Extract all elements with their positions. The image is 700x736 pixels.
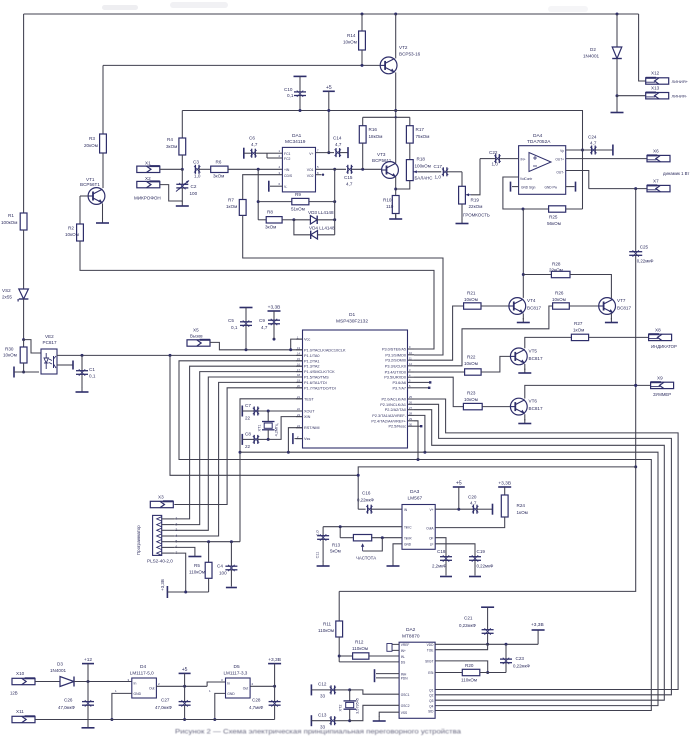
svg-text:+5: +5 (326, 85, 332, 91)
wire P2.4 corner (414, 421, 418, 460)
wire D5 out (250, 685, 276, 688)
resistor R8 (258, 210, 295, 230)
svg-text:4,7: 4,7 (346, 182, 353, 187)
resistor R3 (84, 134, 106, 153)
transistor VT1 (80, 177, 105, 204)
power +3.3 da3 (498, 481, 511, 496)
svg-text:X5: X5 (193, 328, 199, 333)
wire +IN branch down (257, 169, 260, 220)
wire RST net (240, 428, 303, 454)
svg-text:110кОм: 110кОм (318, 628, 334, 633)
svg-text:VT3: VT3 (377, 152, 386, 157)
connector X6 (647, 149, 670, 162)
svg-text:VDD: VDD (427, 643, 434, 647)
gnd VT6 (518, 414, 531, 423)
svg-text:PDN: PDN (401, 677, 408, 681)
transistor VT7 (599, 298, 632, 315)
svg-text:ИНДИКАТОР: ИНДИКАТОР (651, 344, 677, 349)
svg-text:X3: X3 (158, 495, 164, 500)
svg-text:1,0: 1,0 (492, 162, 499, 167)
svg-text:Вызов: Вызов (190, 334, 203, 339)
svg-text:4,7: 4,7 (335, 142, 342, 147)
svg-text:БАЛАНС: БАЛАНС (415, 176, 433, 181)
svg-text:R20: R20 (465, 663, 474, 668)
svg-text:P3.2/SOMI0: P3.2/SOMI0 (385, 359, 406, 363)
svg-text:St/GT: St/GT (425, 660, 433, 664)
ic DA2 MT8870 (399, 627, 435, 718)
wire VT1 base (80, 196, 88, 224)
svg-text:47,0мкФ: 47,0мкФ (58, 705, 75, 710)
svg-text:C13: C13 (318, 713, 327, 718)
svg-text:P3.1/SIMO0: P3.1/SIMO0 (385, 353, 406, 357)
svg-text:C6: C6 (249, 136, 255, 141)
svg-text:1кОм: 1кОм (573, 327, 584, 332)
gnd bar left (14, 367, 39, 378)
svg-text:110кОм: 110кОм (189, 570, 205, 575)
svg-text:100кОм: 100кОм (1, 220, 17, 225)
svg-text:C20: C20 (468, 495, 477, 500)
svg-text:TimC: TimC (404, 526, 412, 530)
optocoupler VE2 (41, 334, 57, 374)
svg-text:4: 4 (176, 534, 178, 538)
svg-text:Q3: Q3 (429, 699, 433, 703)
svg-text:4,7: 4,7 (470, 501, 477, 506)
svg-text:DS: DS (401, 661, 405, 665)
svg-text:+3,3В: +3,3В (268, 657, 281, 663)
capacitor C23 (500, 644, 530, 672)
wire R18 bottom (396, 181, 410, 189)
svg-text:+IN: +IN (284, 168, 290, 172)
resistor R7 (226, 198, 246, 216)
wire R1 to VS2 (23, 230, 25, 289)
zener VS2 (2, 288, 28, 302)
wire X4 pin7 to 3.3 (174, 553, 185, 592)
svg-text:1N4001: 1N4001 (583, 54, 600, 59)
svg-text:R27: R27 (574, 321, 583, 326)
svg-text:1кОм: 1кОм (226, 204, 237, 209)
svg-text:P2.1/INCLK/A1: P2.1/INCLK/A1 (380, 403, 406, 407)
svg-text:X1: X1 (145, 161, 151, 166)
svg-text:R24: R24 (517, 503, 526, 508)
wire node to VE2 pin1 (24, 340, 41, 353)
svg-text:Out: Out (243, 687, 249, 691)
svg-text:4,7: 4,7 (251, 142, 258, 147)
svg-text:VT2: VT2 (399, 45, 408, 50)
resistor R27 (571, 321, 648, 341)
capacitor C10 (284, 76, 307, 112)
svg-text:C1: C1 (89, 367, 95, 372)
stub P2.5 (414, 425, 422, 427)
svg-text:+5: +5 (182, 667, 188, 673)
svg-text:FC2: FC2 (284, 157, 291, 161)
wire R2 to P3.0 line (80, 241, 434, 349)
wire VE2 emitter bar (57, 361, 73, 370)
svg-text:47,0мкФ: 47,0мкФ (155, 705, 172, 710)
svg-text:C5: C5 (228, 318, 234, 323)
svg-text:C23: C23 (516, 656, 525, 661)
transistor VT2 (380, 45, 420, 74)
svg-text:C7: C7 (245, 403, 251, 408)
capacitor C20 (468, 495, 493, 515)
gnd VT7 (605, 314, 618, 323)
wire P2.0 to Q1 (414, 399, 678, 690)
label МИКРОФОН (134, 196, 161, 201)
svg-text:R21: R21 (467, 291, 476, 296)
svg-text:DA1: DA1 (292, 133, 302, 139)
svg-text:X10: X10 (16, 671, 25, 676)
svg-text:BC817: BC817 (529, 356, 543, 361)
svg-text:0,22мкФ: 0,22мкФ (513, 664, 530, 669)
capacitor C5 (228, 308, 253, 350)
svg-text:1,0: 1,0 (194, 174, 201, 179)
svg-text:P3.0/STE0/A5: P3.0/STE0/A5 (382, 348, 406, 352)
connector X2 (137, 176, 160, 188)
svg-text:TEST: TEST (304, 397, 314, 401)
terminator DA1 V- (269, 181, 283, 192)
svg-text:R11: R11 (323, 622, 332, 627)
svg-text:51кОм: 51кОм (291, 207, 305, 212)
stubs DA4 gnd pins (566, 182, 576, 192)
svg-text:22: 22 (245, 416, 251, 421)
capacitor C4 (217, 542, 237, 588)
gnd X4 pin6 (174, 547, 201, 556)
power +5 psu (179, 667, 191, 686)
svg-text:P2.3/TA1/A3/VREF-: P2.3/TA1/A3/VREF- (372, 414, 406, 418)
diode D2 (583, 13, 622, 98)
mcu right pins (371, 345, 414, 429)
connector X7 (647, 179, 670, 192)
connector X10 (10, 671, 35, 696)
wire left vertical (23, 14, 25, 213)
svg-text:Программатор: Программатор (136, 525, 141, 555)
wire R18 wiper to C17 (418, 171, 441, 173)
svg-text:BC817: BC817 (527, 306, 541, 311)
svg-text:V+: V+ (309, 152, 313, 156)
svg-text:1кОм: 1кОм (517, 510, 528, 515)
svg-text:Q1: Q1 (429, 688, 433, 692)
svg-text:GND Pw: GND Pw (545, 185, 558, 189)
svg-text:C11: C11 (316, 552, 320, 559)
connector X12 (646, 71, 689, 85)
wire to X12 (639, 14, 646, 81)
wire VT3 collector (395, 117, 397, 163)
svg-text:ЛИНИЯ+: ЛИНИЯ+ (672, 79, 689, 84)
svg-text:X8: X8 (655, 327, 661, 332)
svg-text:22: 22 (245, 444, 251, 449)
wire P2.1 to Q2 (414, 404, 671, 695)
power +3.3 prog (160, 579, 209, 598)
svg-text:C9: C9 (259, 318, 265, 323)
regulator D5 (209, 664, 254, 698)
wire VT4 collector (522, 209, 525, 298)
connector X11 (12, 709, 35, 723)
connector X13 (646, 86, 688, 99)
svg-text:IN+: IN+ (401, 649, 406, 653)
svg-text:C10: C10 (284, 87, 293, 92)
resistor R5 (189, 542, 212, 592)
svg-text:LF: LF (430, 543, 434, 547)
wire P3.5 to R23 (414, 377, 463, 406)
wire R16 R17 bracket (363, 116, 410, 118)
svg-text:Рисунок 2 — Схема электрическа: Рисунок 2 — Схема электрическая принципи… (175, 728, 462, 736)
gnd VSS (373, 712, 399, 721)
wire TimC row (323, 525, 402, 528)
svg-text:BCP5611: BCP5611 (372, 158, 392, 163)
wire TOE up (435, 644, 488, 649)
svg-text:R25: R25 (549, 215, 558, 220)
capacitor C14 (333, 136, 348, 159)
svg-text:VolContr: VolContr (520, 177, 533, 181)
svg-text:10кОм: 10кОм (464, 397, 478, 402)
svg-text:100кОм: 100кОм (415, 163, 431, 168)
svg-text:22кОм: 22кОм (549, 267, 563, 272)
capacitor C12 (311, 682, 351, 699)
wire X10 to D3 (35, 681, 60, 683)
svg-text:R18: R18 (417, 157, 426, 162)
svg-text:12В: 12В (10, 691, 18, 696)
svg-text:C26: C26 (64, 698, 73, 703)
wire jog to D5 (207, 682, 225, 686)
svg-text:Vss: Vss (304, 437, 310, 441)
wire P3.2 to R21 (414, 306, 464, 360)
svg-text:X2: X2 (145, 176, 151, 181)
svg-text:C14: C14 (333, 136, 342, 141)
transistor VT4 (509, 298, 542, 315)
svg-text:C2: C2 (191, 184, 197, 189)
svg-text:GND Sign: GND Sign (521, 185, 536, 189)
svg-text:VT5: VT5 (529, 349, 538, 354)
connector X9 (651, 376, 674, 398)
svg-text:P3.7/A7: P3.7/A7 (392, 386, 406, 390)
svg-text:2: 2 (176, 522, 178, 526)
capacitor C9 (259, 318, 280, 339)
svg-text:0,1: 0,1 (89, 374, 96, 379)
resistor R28 (523, 262, 570, 278)
svg-text:110кОм: 110кОм (461, 678, 477, 683)
svg-text:C4: C4 (217, 564, 223, 569)
svg-text:P1.4/SMCLK/TCK: P1.4/SMCLK/TCK (304, 370, 335, 374)
svg-text:18кОм: 18кОм (369, 134, 383, 139)
svg-text:BCP53-16: BCP53-16 (399, 52, 421, 57)
svg-text:P2.4/TA2/A4/VREF+: P2.4/TA2/A4/VREF+ (371, 419, 406, 423)
potentiometer R19 (459, 172, 483, 209)
svg-text:10кОм: 10кОм (65, 232, 79, 237)
svg-text:4,7: 4,7 (590, 141, 597, 146)
wire gnd rail (35, 719, 275, 721)
gnd VT4 (517, 314, 530, 323)
mcu D1 MSP430F2132 (303, 312, 408, 448)
wire collector rail VT1 (102, 65, 104, 134)
terminator Vss (293, 433, 303, 444)
svg-text:R9: R9 (295, 192, 301, 197)
wire VT6 collector to X9 (525, 384, 651, 399)
gnd mic node (176, 201, 189, 206)
svg-text:R1: R1 (8, 213, 14, 218)
svg-text:R14: R14 (347, 33, 356, 38)
svg-text:BC817: BC817 (529, 406, 543, 411)
svg-text:R28: R28 (552, 262, 561, 267)
svg-text:+3,3В: +3,3В (531, 622, 544, 628)
resistor R2 (65, 224, 83, 241)
wire OutA (435, 517, 505, 528)
svg-text:DA4: DA4 (533, 133, 543, 139)
svg-text:OF: OF (429, 537, 433, 541)
svg-text:R3: R3 (89, 136, 95, 141)
svg-text:D2: D2 (590, 47, 596, 52)
svg-text:P2.0/ACLK/A0: P2.0/ACLK/A0 (382, 398, 406, 402)
resistor R30 (3, 340, 27, 363)
svg-text:OSC2: OSC2 (401, 704, 410, 708)
power +3.3 mcu (268, 305, 281, 321)
stub P3.7 (414, 387, 430, 389)
capacitor C21 (459, 607, 494, 646)
power +5 da3 (453, 481, 465, 510)
wire OSC1 (350, 690, 399, 694)
wire P2.2 to Q3 (414, 410, 664, 701)
diode VD4 (294, 220, 335, 239)
label dynamic (663, 171, 689, 176)
wire da3 box right-bottom (339, 467, 636, 592)
wire P1.5 net (174, 377, 302, 530)
svg-text:P3.4/UTXD0: P3.4/UTXD0 (385, 371, 406, 375)
diode D3 (50, 662, 74, 687)
svg-text:3: 3 (176, 528, 178, 532)
svg-text:DA2: DA2 (406, 627, 416, 633)
svg-text:110: 110 (386, 204, 394, 209)
transistor VT6 (510, 398, 543, 415)
wire da3 box top (357, 467, 636, 509)
connector X4 programmer (136, 515, 178, 563)
svg-text:2х55: 2х55 (2, 295, 12, 300)
svg-text:R13: R13 (332, 543, 341, 548)
svg-text:динамик 1 Вт: динамик 1 Вт (663, 171, 689, 176)
svg-text:R7: R7 (228, 198, 234, 203)
svg-text:R17: R17 (416, 127, 425, 132)
wire P3.1 net (414, 354, 443, 356)
svg-text:10кОм: 10кОм (552, 297, 566, 302)
svg-text:C12: C12 (318, 682, 327, 687)
svg-text:R8: R8 (267, 210, 273, 215)
svg-text:+12: +12 (84, 657, 92, 663)
svg-text:BCP56T1: BCP56T1 (80, 182, 100, 187)
capacitor C18 (432, 538, 452, 577)
svg-text:C28: C28 (252, 698, 261, 703)
loop VREF IN+ (387, 644, 399, 652)
svg-text:+3,3В: +3,3В (268, 305, 281, 311)
opamp DA1 MC34119 (279, 133, 320, 192)
caption (175, 728, 462, 736)
capacitor C6 (244, 136, 267, 159)
svg-text:VT6: VT6 (529, 399, 538, 404)
svg-text:XT1: XT1 (258, 425, 262, 432)
svg-text:TDA7052A: TDA7052A (527, 139, 551, 145)
power +5 a (323, 85, 335, 154)
svg-text:+5: +5 (456, 481, 462, 487)
svg-text:BC817: BC817 (617, 306, 631, 311)
svg-text:P1.2/TA1: P1.2/TA1 (304, 359, 320, 363)
svg-text:C22: C22 (489, 150, 498, 155)
wire P1.4 net (174, 372, 302, 525)
capacitor C27 (155, 686, 191, 721)
svg-text:D4: D4 (140, 664, 146, 670)
connector X3 (150, 495, 173, 508)
capacitor C1 (76, 355, 96, 392)
capacitor C13 (311, 713, 351, 730)
svg-text:Vp: Vp (560, 149, 564, 153)
svg-text:C16: C16 (362, 491, 371, 496)
svg-text:ЧАСТОТА: ЧАСТОТА (356, 556, 376, 561)
gnd DA3 (387, 544, 403, 566)
wire DA1 FC pins (267, 153, 282, 158)
resistor R10 (383, 196, 402, 220)
svg-text:ЗУММЕР: ЗУММЕР (653, 392, 671, 397)
wire VT3 emitter (394, 177, 397, 196)
svg-text:Out: Out (149, 687, 155, 691)
svg-text:D3: D3 (57, 662, 63, 667)
wire R11 from box (338, 591, 340, 621)
wire DS row (339, 661, 399, 663)
wire P2.3 corner (414, 415, 425, 452)
svg-text:MSP430F2132: MSP430F2132 (336, 319, 368, 325)
svg-text:3кОм: 3кОм (265, 225, 276, 230)
potentiometer R18 (406, 157, 432, 181)
svg-text:MT8870: MT8870 (402, 634, 420, 640)
svg-text:P1.7/TA2/TDO/TDI: P1.7/TA2/TDO/TDI (304, 386, 336, 390)
wire VT2 collector (394, 13, 397, 59)
svg-text:C15: C15 (344, 175, 353, 180)
wire D4 out (156, 685, 207, 688)
svg-text:ГРОМКОСТЬ: ГРОМКОСТЬ (463, 213, 490, 218)
svg-text:20кОм: 20кОм (84, 143, 98, 148)
wire TEST net (239, 399, 303, 542)
svg-text:3кОм: 3кОм (166, 144, 177, 149)
svg-text:OutA: OutA (426, 527, 434, 531)
svg-text:3кОм: 3кОм (213, 174, 224, 179)
svg-text:Q4: Q4 (429, 704, 433, 708)
capacitor C11 (316, 527, 330, 566)
resistor R9 (258, 192, 336, 212)
wire VO1 out (316, 168, 347, 170)
svg-text:StD: StD (428, 709, 434, 713)
capacitor C24 (566, 135, 613, 156)
svg-text:C27: C27 (161, 698, 170, 703)
regulator D4 (115, 664, 160, 698)
svg-text:TOE: TOE (427, 649, 434, 653)
svg-text:VE2: VE2 (45, 334, 54, 339)
wire R28 to VT7 (570, 275, 611, 299)
svg-text:R5: R5 (194, 563, 200, 568)
crystal XT2 (339, 690, 360, 721)
svg-text:VT7: VT7 (617, 298, 626, 303)
wire +5 rail y110 (182, 110, 583, 112)
svg-text:P1.3/TA2: P1.3/TA2 (304, 365, 320, 369)
wire to DA4 Vp (581, 111, 584, 210)
svg-text:+3,3В: +3,3В (498, 481, 511, 487)
svg-text:VO2: VO2 (307, 174, 314, 178)
svg-text:R26: R26 (555, 291, 564, 296)
wire volume net (471, 159, 480, 195)
wire VS2 to node (22, 299, 25, 341)
trimmer R13 (330, 527, 402, 561)
svg-text:56кОм: 56кОм (547, 221, 561, 226)
connector X5 (187, 328, 210, 347)
svg-text:R16: R16 (369, 127, 378, 132)
svg-text:PLS2-40-2,0: PLS2-40-2,0 (147, 559, 173, 564)
capacitor C7 (242, 403, 302, 421)
resistor R17 (406, 117, 429, 159)
svg-text:1: 1 (176, 517, 178, 521)
connector X8 (649, 327, 677, 348)
